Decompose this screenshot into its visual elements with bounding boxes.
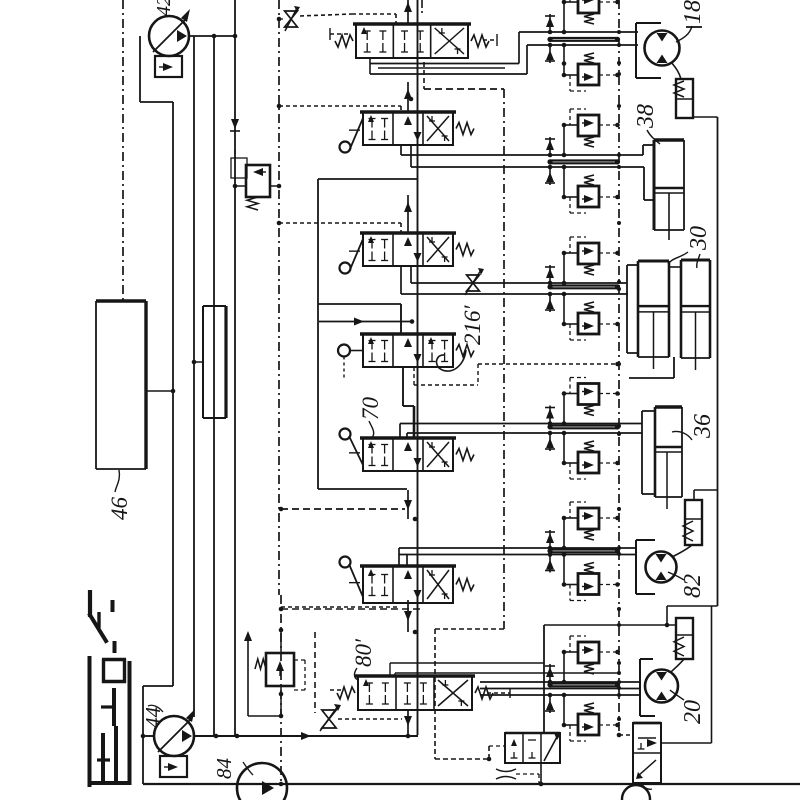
svg-text:216′: 216′: [460, 305, 485, 346]
svg-text:82: 82: [680, 574, 706, 598]
svg-text:70: 70: [358, 397, 383, 421]
svg-text:42: 42: [153, 0, 175, 16]
svg-text:80′: 80′: [351, 638, 376, 667]
svg-text:18: 18: [680, 0, 706, 24]
svg-text:20: 20: [680, 700, 706, 724]
svg-text:30: 30: [686, 226, 712, 251]
svg-text:36: 36: [690, 414, 716, 439]
svg-text:38: 38: [633, 104, 659, 129]
svg-text:84: 84: [212, 758, 236, 780]
svg-text:46: 46: [107, 497, 132, 521]
